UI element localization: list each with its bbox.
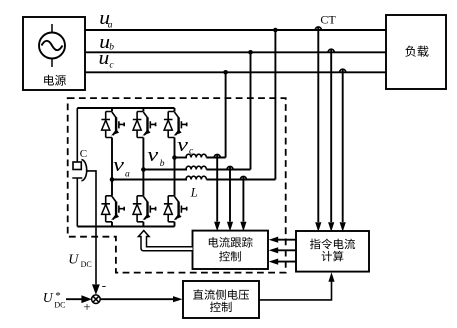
summing junction [92, 295, 101, 304]
IGBT Q1 with diode [101, 112, 124, 138]
node uc junction [223, 70, 228, 75]
svg-text:U: U [68, 253, 79, 268]
inductor L phase a [186, 176, 206, 179]
wire reference current [277, 239, 296, 241]
wire sensor a to controller [242, 176, 244, 221]
wire leg 1 bottom stub [111, 222, 113, 227]
node vc [172, 155, 177, 160]
wire vc row [175, 157, 188, 159]
wire sensor b to controller [229, 166, 231, 221]
label 控制 [210, 302, 232, 312]
wire reference current [277, 261, 296, 263]
svg-text:v: v [177, 136, 189, 156]
wire leg 2 mid [142, 138, 144, 196]
AC source symbol [39, 24, 65, 67]
wire vb row after L [206, 169, 250, 171]
svg-text:u: u [99, 49, 110, 69]
hollow PWM arrow [138, 231, 192, 251]
block 指令电流计算 [296, 231, 369, 272]
wire riser vb to ub [250, 52, 252, 169]
node vb [141, 167, 146, 172]
svg-text:-: - [102, 277, 106, 292]
inductor L phase b [186, 166, 206, 169]
wire riser vc to uc [225, 72, 227, 157]
dashed APF boundary box [68, 98, 286, 273]
wire CTa sense arrow [315, 222, 321, 232]
svg-text:a: a [125, 169, 130, 179]
DC bus top rail [77, 107, 174, 109]
CT sensor phase b [328, 49, 334, 52]
capacitor C [72, 108, 82, 227]
wire junction to DC voltage control [100, 298, 174, 300]
node va [110, 177, 115, 182]
IGBT Q5 with diode [164, 112, 187, 138]
wire reference current [277, 249, 296, 251]
label 直流侧电压 [193, 289, 249, 299]
wire ua [85, 29, 386, 31]
wire U_DC sense [87, 171, 96, 284]
wire ub [85, 51, 386, 53]
current sensor phase b [227, 166, 233, 169]
DC bus bottom rail [77, 226, 174, 228]
inductor L phase c [186, 154, 206, 157]
current sensor phase a [240, 176, 246, 179]
svg-text:L: L [190, 186, 198, 200]
block 电流跟踪控制 [193, 231, 269, 269]
wire va row after L [206, 179, 275, 181]
wire leg 3 bottom stub [174, 222, 176, 227]
voltage sensor arc on C [81, 160, 86, 181]
IGBT Q3 with diode [133, 112, 156, 138]
wire vb row [143, 169, 187, 171]
label 指令电流 [310, 239, 355, 250]
svg-text:v: v [147, 146, 159, 166]
current sensor phase c [214, 154, 220, 157]
svg-text:a: a [108, 21, 113, 31]
node ua junction [273, 28, 278, 33]
wire riser va to ua [274, 30, 276, 180]
wire leg 1 top stub [111, 108, 113, 112]
CT sensor phase a [315, 27, 321, 30]
wire leg 2 bottom stub [142, 222, 144, 227]
svg-text:DC: DC [54, 301, 65, 310]
label 计算 [322, 251, 344, 262]
wire DC voltage control output [259, 281, 332, 300]
wire leg 1 mid [111, 138, 113, 196]
svg-text:CT: CT [320, 13, 336, 27]
IGBT Q2 with diode [101, 196, 124, 222]
label 电流跟踪 [209, 237, 253, 248]
source box [23, 17, 85, 90]
wire leg 2 top stub [142, 108, 144, 112]
wire sensor c to controller [216, 154, 218, 221]
label 电源 (power source) [44, 75, 66, 86]
svg-text:b: b [109, 43, 114, 53]
wire leg 3 top stub [174, 108, 176, 112]
label 控制 [219, 251, 241, 261]
wire CTb sense arrow [328, 222, 334, 232]
wire U*_DC to junction [66, 298, 82, 300]
svg-text:b: b [160, 159, 165, 169]
svg-text:DC: DC [81, 260, 92, 269]
node ub junction [248, 50, 253, 55]
CT sensor phase c [340, 69, 346, 72]
wire va row [112, 179, 187, 181]
wire vc row after L [206, 157, 225, 159]
load box [386, 15, 446, 89]
wire uc [85, 71, 386, 73]
svg-text:U: U [43, 290, 54, 305]
IGBT Q6 with diode [164, 196, 187, 222]
svg-text:C: C [80, 148, 87, 160]
svg-text:v: v [113, 156, 125, 176]
wire leg 3 mid [174, 138, 176, 196]
IGBT Q4 with diode [133, 196, 156, 222]
block 直流侧电压控制 [183, 281, 259, 318]
label 负载 (load) [405, 46, 428, 57]
wire CTc sense arrow [340, 222, 346, 232]
